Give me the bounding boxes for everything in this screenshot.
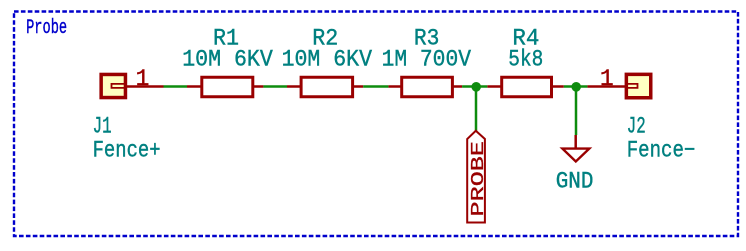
svg-text:10M 6KV: 10M 6KV: [282, 46, 373, 72]
svg-text:J1: J1: [93, 113, 112, 139]
svg-text:1M 700V: 1M 700V: [382, 46, 472, 72]
svg-text:Fence+: Fence+: [93, 137, 161, 163]
svg-text:Fence−: Fence−: [627, 137, 696, 163]
svg-text:10M 6KV: 10M 6KV: [182, 46, 273, 72]
svg-text:PROBE: PROBE: [469, 141, 489, 217]
svg-text:Probe: Probe: [26, 17, 67, 40]
svg-text:5k8: 5k8: [508, 46, 543, 72]
svg-text:J2: J2: [627, 113, 646, 139]
svg-text:1: 1: [136, 66, 150, 92]
svg-text:1: 1: [600, 66, 614, 92]
svg-text:GND: GND: [556, 168, 594, 194]
